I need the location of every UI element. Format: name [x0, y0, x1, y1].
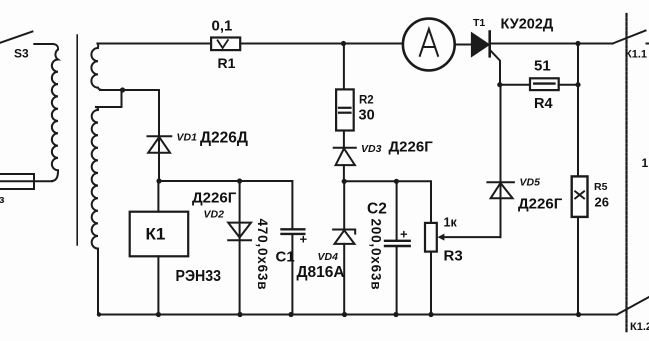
svg-text:VD3: VD3 — [361, 143, 382, 155]
node VD3/VD4 junction — [342, 179, 347, 184]
wire R5 branch vertical — [577, 44, 579, 177]
wire secondary tap — [100, 89, 158, 91]
svg-text:К1.1: К1.1 — [625, 49, 647, 61]
svg-text:30: 30 — [359, 108, 375, 124]
transformer secondary winding lower — [92, 107, 98, 249]
svg-text:R3: R3 — [444, 248, 463, 265]
wire VD5 branch vertical — [500, 85, 502, 237]
svg-text:VD5: VD5 — [520, 177, 541, 189]
diode VD5 — [487, 182, 514, 198]
resistor R2 — [336, 89, 354, 130]
svg-text:К1.2: К1.2 — [630, 321, 649, 333]
node bottom-left corner — [97, 312, 101, 316]
svg-text:Д226Г: Д226Г — [518, 196, 563, 213]
svg-text:VD2: VD2 — [204, 209, 225, 221]
svg-text:200,0х63в: 200,0х63в — [369, 219, 384, 291]
node C1 bottom — [288, 312, 293, 317]
svg-text:+: + — [400, 227, 408, 242]
node C2 top — [394, 179, 399, 184]
node R4 right junction — [575, 82, 580, 87]
wire R3 bottom lead — [430, 252, 432, 315]
zener diode VD4 — [333, 230, 355, 244]
svg-text:Д226Г: Д226Г — [192, 190, 237, 207]
thyristor T1 — [472, 32, 500, 86]
svg-text:Д226Г: Д226Г — [389, 139, 434, 156]
node VD2 top — [237, 178, 242, 183]
wire gate to R4 — [500, 84, 530, 86]
svg-text:Д226Д: Д226Д — [200, 130, 248, 147]
svg-text:КУ202Д: КУ202Д — [501, 17, 554, 33]
wire C2 top lead — [396, 181, 398, 241]
fuse FU — [0, 174, 34, 189]
node R2 top — [341, 41, 346, 46]
diode VD3 — [334, 148, 356, 165]
wire ammeter to T1 — [455, 44, 472, 46]
transformer core — [76, 35, 78, 245]
wire R5 bottom lead — [577, 217, 579, 315]
wire VD1 branch vertical — [158, 90, 159, 181]
capacitor C1 — [282, 229, 305, 234]
relay coil K1 — [130, 212, 189, 257]
svg-text:R2: R2 — [359, 95, 374, 107]
contact K1.2 — [617, 297, 649, 315]
wire VD3 to right rail — [343, 165, 345, 181]
svg-text:26: 26 — [595, 195, 609, 210]
wire C1 bottom lead — [291, 234, 293, 315]
svg-text:+: + — [300, 232, 308, 247]
svg-text:Д816А: Д816А — [297, 264, 345, 281]
transformer primary winding — [52, 44, 58, 181]
node K1 bottom — [156, 312, 161, 317]
svg-text:C2: C2 — [367, 201, 387, 218]
contact K1.1 — [613, 31, 649, 44]
wire VD4 branch — [343, 181, 345, 229]
svg-text:S3: S3 — [14, 47, 29, 61]
wire tap step to lower winding — [96, 91, 122, 107]
svg-text:РЭН33: РЭН33 — [176, 268, 222, 285]
capacitor C2 — [385, 241, 410, 246]
svg-text:R4: R4 — [534, 96, 553, 112]
wire R2 to VD3 — [343, 131, 345, 149]
svg-text:VD4: VD4 — [318, 251, 339, 263]
svg-text:К1: К1 — [146, 225, 166, 244]
node VD4 bottom — [342, 312, 347, 317]
wire T1 to K1.1 — [491, 43, 613, 45]
diode VD1 — [148, 136, 172, 153]
svg-text:VD1: VD1 — [177, 132, 198, 144]
wire top rail R1 to ammeter — [240, 43, 403, 45]
node R5 bottom — [576, 312, 581, 317]
diode VD2 — [228, 223, 251, 241]
R3 wiper arrow — [438, 234, 501, 241]
node gate/R4 junction — [497, 82, 502, 87]
resistor R1 — [211, 38, 240, 51]
node R3 bottom — [428, 312, 433, 317]
wire left rail — [159, 181, 292, 229]
wire K1 top lead — [157, 181, 159, 212]
wire VD4 bottom lead — [343, 244, 345, 315]
transformer secondary winding upper — [91, 44, 103, 91]
wire C2 bottom lead — [396, 246, 398, 315]
wire R2 branch top — [343, 44, 345, 90]
node C2 bottom — [393, 312, 398, 317]
wire VD2 branch — [239, 181, 241, 315]
svg-text:C1: C1 — [276, 249, 295, 266]
svg-text:1: 1 — [642, 156, 649, 170]
resistor R5 lamp — [572, 176, 588, 217]
switch S3 — [0, 32, 32, 44]
node VD2 bottom — [237, 312, 242, 317]
wire R4 to vertical — [559, 84, 578, 86]
svg-text:1к: 1к — [444, 216, 458, 230]
wire K1 bottom lead — [157, 256, 159, 314]
svg-text:Т1: Т1 — [473, 17, 485, 29]
potentiometer R3 — [425, 223, 437, 252]
node VD1/K1 junction — [156, 178, 161, 183]
svg-text:R5: R5 — [594, 181, 608, 193]
wire S3 contact to primary — [34, 43, 53, 45]
node top wire / R5 branch — [575, 41, 580, 46]
svg-text:R1: R1 — [218, 55, 236, 71]
resistor R4 — [530, 78, 559, 90]
svg-text:0,1: 0,1 — [212, 18, 233, 35]
ammeter PA1 — [403, 19, 455, 71]
wire secondary bottom lead — [98, 249, 617, 315]
svg-text:51: 51 — [534, 58, 551, 75]
svg-text:з: з — [0, 194, 5, 206]
svg-text:470,0х63в: 470,0х63в — [255, 219, 270, 291]
dashed relay link line — [625, 14, 627, 333]
wire top rail from secondary — [98, 43, 212, 45]
wire right rail — [344, 181, 431, 223]
node tap junction — [120, 87, 125, 92]
